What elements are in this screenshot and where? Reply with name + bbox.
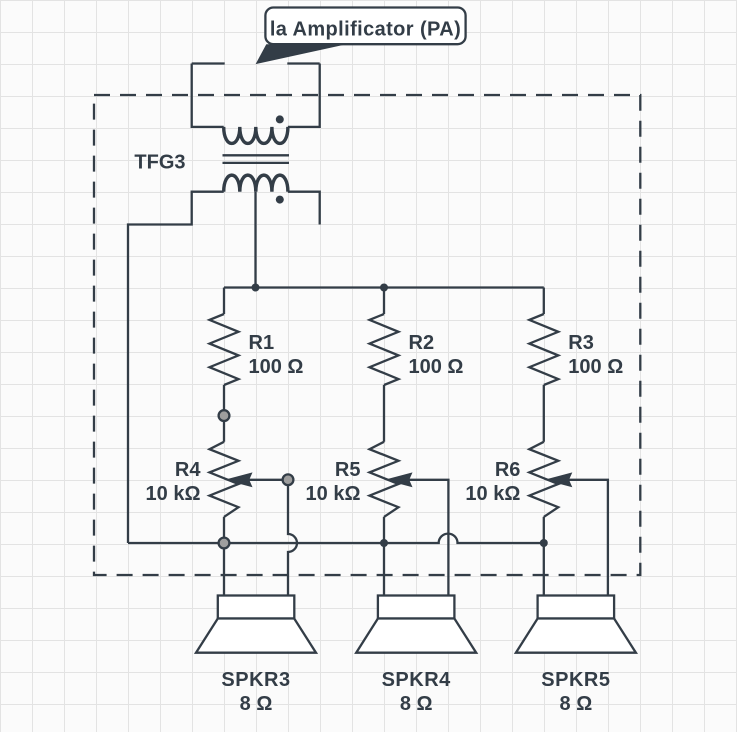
transformer TFG3 primary polarity dot [276, 115, 284, 123]
terminal dot R1-R4 junction (gray) [219, 410, 230, 421]
speaker SPKR4 body [378, 596, 455, 619]
svg-text:100 Ω: 100 Ω [249, 356, 304, 378]
speaker SPKR3 body [218, 596, 294, 619]
junction dot R2 on top bus [380, 284, 388, 292]
wire R4 bottom lead to speaker SPKR3 [223, 517, 225, 596]
svg-text:R4: R4 [175, 459, 201, 481]
wire R3 top lead [543, 288, 545, 315]
resistor R1 [210, 314, 239, 385]
terminal dot R4 wiper corner (gray) [283, 474, 294, 485]
svg-text:10 kΩ: 10 kΩ [306, 483, 361, 505]
svg-text:8 Ω: 8 Ω [560, 693, 593, 715]
svg-text:la Amplificator (PA): la Amplificator (PA) [270, 18, 461, 40]
wire R2 top lead [383, 288, 385, 315]
wire R1 to R4 [223, 385, 225, 442]
wire top bus node [224, 286, 544, 288]
potentiometer R4 wiper arrow [227, 474, 251, 487]
callout tail [256, 44, 347, 64]
wire R5 wiper [409, 480, 448, 596]
svg-text:8 Ω: 8 Ω [240, 693, 273, 715]
potentiometer R5 zigzag [370, 442, 399, 517]
junction dot R6 on bottom bus [540, 539, 548, 547]
speaker SPKR3 cone [196, 619, 316, 653]
transformer TFG3 top connection wire (left segment) [192, 62, 225, 64]
svg-text:R6: R6 [495, 459, 521, 481]
potentiometer R4 zigzag [210, 442, 239, 517]
terminal dot R4 bottom on bus (gray) [219, 538, 230, 549]
resistor R3 [529, 314, 558, 385]
transformer TFG3 secondary polarity dot [276, 196, 284, 204]
potentiometer R6 wiper arrow [547, 474, 571, 487]
svg-text:R5: R5 [335, 459, 361, 481]
svg-text:TFG3: TFG3 [134, 152, 185, 174]
wire transformer primary right lead [288, 64, 320, 127]
transformer TFG3 top connection wire (right segment) [287, 62, 319, 64]
svg-text:10 kΩ: 10 kΩ [146, 483, 201, 505]
svg-text:10 kΩ: 10 kΩ [465, 483, 520, 505]
wire R6 bottom lead to speaker SPKR5 [543, 517, 545, 596]
wire secondary center tap [254, 192, 256, 288]
wire secondary right stub [288, 192, 320, 225]
transformer TFG3 secondary winding L2 [224, 175, 288, 192]
wire R3 to R6 [543, 385, 545, 442]
speaker SPKR4 cone [356, 619, 476, 653]
wire bottom bus with hops [128, 534, 544, 543]
wire secondary left lead down to bottom bus [128, 192, 224, 543]
potentiometer R5 wiper arrow [387, 474, 411, 487]
svg-text:SPKR4: SPKR4 [382, 669, 452, 691]
wire R6 wiper [569, 480, 608, 596]
wire R5 bottom lead to speaker SPKR4 [383, 517, 385, 596]
wire R4 wiper down to speaker SPKR3 [288, 480, 297, 596]
wire R2 to R5 [383, 385, 385, 442]
transformer TFG3 primary winding L1 [224, 127, 288, 144]
speaker SPKR5 body [538, 596, 615, 619]
svg-text:SPKR3: SPKR3 [221, 669, 290, 691]
dashed enclosure border [94, 95, 640, 575]
wire transformer primary left lead [192, 64, 224, 127]
callout bubble "la Amplificator (PA)" [265, 8, 465, 45]
svg-text:R2: R2 [409, 332, 435, 354]
svg-text:R1: R1 [249, 332, 275, 354]
transformer TFG3 core lines [223, 155, 290, 163]
speaker SPKR5 cone [516, 619, 636, 653]
junction dot R5 on bottom bus [380, 539, 388, 547]
wire R1 top lead [223, 288, 225, 315]
svg-text:100 Ω: 100 Ω [409, 356, 464, 378]
svg-text:SPKR5: SPKR5 [541, 669, 610, 691]
svg-text:8 Ω: 8 Ω [400, 693, 433, 715]
potentiometer R6 zigzag [529, 442, 558, 517]
svg-text:R3: R3 [568, 332, 594, 354]
junction dot node A (center tap to top bus) [252, 284, 260, 292]
wire R4 wiper [249, 479, 288, 481]
svg-text:100 Ω: 100 Ω [568, 356, 623, 378]
resistor R2 [370, 314, 399, 385]
